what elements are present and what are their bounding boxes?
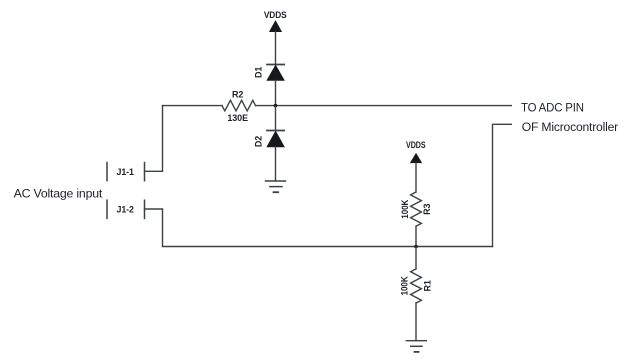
svg-text:AC Voltage input: AC Voltage input [14,186,103,200]
svg-text:100K: 100K [400,276,410,296]
wire node to R1 [415,247,417,269]
resistor R1 [400,269,433,303]
wire R3 to bottom net [415,226,417,246]
wire R1 to ground [415,303,417,341]
power VDDS (above R3) [406,140,426,163]
wire OF Microcontroller stub (right riser) [493,124,512,246]
svg-text:100K: 100K [400,199,410,219]
wire J1-2 stub down and across bottom net [145,209,493,247]
wire J1-1 stub to main wire (left riser) [145,106,163,172]
resistor R2 [222,90,256,123]
wire main horizontal right segment to TO ADC PIN [256,105,512,107]
label OF Microcontroller [522,120,618,134]
svg-text:OF Microcontroller: OF Microcontroller [522,120,618,134]
wire VDDS arrow to D1 cathode [275,32,277,65]
ground (below D2) [266,181,286,192]
wire main node to D2 cathode [275,106,277,130]
label AC Voltage input [14,186,103,200]
connector J1-1 [107,163,145,181]
svg-text:VDDS: VDDS [264,10,287,20]
svg-text:VDDS: VDDS [406,140,426,150]
svg-text:R1: R1 [423,280,433,291]
wire main horizontal left segment [163,105,223,107]
node junction at D1/D2 and main wire [274,104,278,108]
svg-text:J1-1: J1-1 [117,167,134,177]
svg-text:TO ADC PIN: TO ADC PIN [521,101,584,115]
diode D2 [253,131,284,148]
node junction bottom net at R divider [414,245,418,249]
ground (below R1) [406,341,426,352]
power VDDS (top, above D1) [264,10,287,32]
svg-text:D2: D2 [253,136,263,147]
wire D1 anode to main node [275,80,277,104]
wire VDDS arrow to R3 [415,163,417,192]
svg-text:D1: D1 [253,67,263,78]
diode D1 [253,65,284,81]
wire D2 anode to ground [275,147,277,181]
svg-text:R3: R3 [422,203,432,214]
connector J1-2 [107,200,145,218]
svg-text:130E: 130E [227,113,248,123]
svg-text:J1-2: J1-2 [117,205,134,215]
svg-text:R2: R2 [232,90,243,100]
label TO ADC PIN [521,101,584,115]
resistor R3 [400,192,432,226]
